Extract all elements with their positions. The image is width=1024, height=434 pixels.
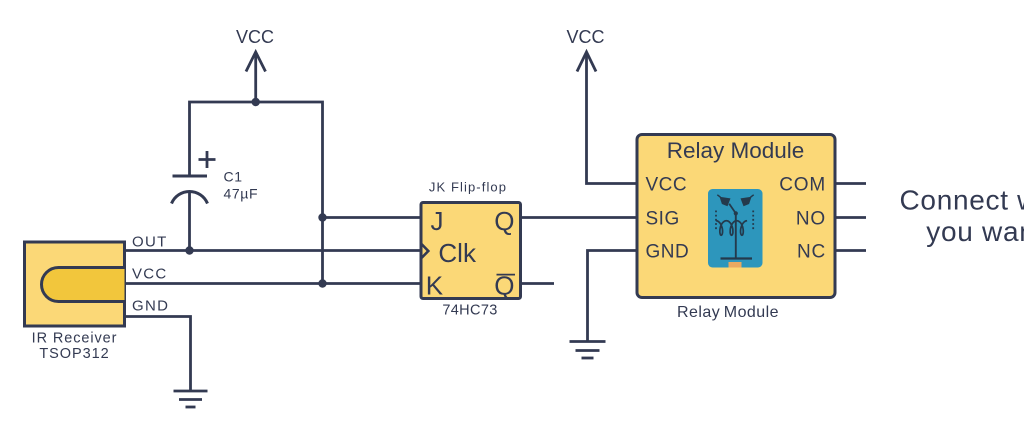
label C1 47uF xyxy=(224,169,259,202)
svg-text:JK Flip-flop: JK Flip-flop xyxy=(429,180,507,195)
junction node (VCC arrow / top wire) xyxy=(252,98,260,106)
svg-text:Q: Q xyxy=(494,206,514,236)
label Relay Module (title) xyxy=(667,138,805,163)
svg-text:OUT: OUT xyxy=(132,234,168,251)
wire NC stub xyxy=(835,249,866,252)
svg-text:SIG: SIG xyxy=(646,208,680,229)
svg-text:VCC: VCC xyxy=(236,27,274,47)
label IR Receiver TSOP312 xyxy=(32,331,118,362)
svg-text:J: J xyxy=(431,206,444,236)
power VCC arrow (right) xyxy=(577,52,637,184)
pin label VCC xyxy=(132,265,168,282)
wire COM stub xyxy=(835,182,866,185)
svg-text:GND: GND xyxy=(132,298,169,315)
capacitor C1 xyxy=(172,151,216,251)
svg-text:74HC73: 74HC73 xyxy=(442,303,497,319)
annotation Connect whatever you want xyxy=(900,185,1024,248)
label Relay Module (bottom) xyxy=(677,304,779,321)
JK flip-flop U1 74HC73 xyxy=(421,203,521,299)
wire NO stub xyxy=(835,216,866,219)
pin label SIG xyxy=(646,208,680,229)
ground (relay) xyxy=(570,342,606,359)
relay icon xyxy=(708,189,763,268)
svg-text:you want!: you want! xyxy=(926,216,1024,247)
power VCC arrow (left) xyxy=(246,52,266,102)
svg-text:COM: COM xyxy=(779,174,826,195)
pin label Q xyxy=(494,206,514,236)
label JK Flip-flop xyxy=(429,180,507,195)
svg-text:TSOP312: TSOP312 xyxy=(39,346,109,362)
pin label K xyxy=(426,271,444,301)
net label VCC (right) xyxy=(566,27,604,47)
junction node (cap / OUT wire) xyxy=(185,246,193,254)
wire capacitor top loop xyxy=(190,102,323,284)
pin label NO xyxy=(796,208,826,229)
pin label COM xyxy=(779,174,826,195)
relay module body xyxy=(637,135,835,298)
wire VCC to K xyxy=(125,282,422,285)
pin label Qbar xyxy=(494,271,515,301)
svg-text:Clk: Clk xyxy=(438,238,477,268)
svg-text:VCC: VCC xyxy=(646,174,688,195)
svg-text:IR Receiver: IR Receiver xyxy=(32,331,118,347)
label 74HC73 xyxy=(442,303,497,319)
pin label Clk xyxy=(438,238,477,268)
wire Q to SIG xyxy=(521,216,638,219)
wire J input xyxy=(323,216,422,219)
wire Qbar stub xyxy=(521,282,555,285)
wire relay GND to ground xyxy=(588,251,638,342)
net label VCC (left) xyxy=(236,27,274,47)
wire IR GND to ground xyxy=(125,317,191,392)
svg-text:47µF: 47µF xyxy=(224,186,259,202)
svg-text:Connect whatever: Connect whatever xyxy=(900,185,1024,216)
IR receiver TSOP312 body xyxy=(25,242,125,326)
svg-text:C1: C1 xyxy=(224,169,243,185)
svg-text:Relay Module: Relay Module xyxy=(667,138,805,163)
pin label GND (relay) xyxy=(646,241,690,262)
pin label OUT xyxy=(132,234,168,251)
pin label VCC (relay) xyxy=(646,174,688,195)
svg-text:VCC: VCC xyxy=(566,27,604,47)
svg-text:NC: NC xyxy=(797,241,826,262)
ground (IR receiver) xyxy=(174,391,208,407)
svg-text:K: K xyxy=(426,271,444,301)
svg-text:VCC: VCC xyxy=(132,265,168,282)
svg-text:NO: NO xyxy=(796,208,826,229)
pin label GND xyxy=(132,298,169,315)
wire OUT to Clk xyxy=(125,249,422,252)
pin label J xyxy=(431,206,444,236)
svg-text:Relay Module: Relay Module xyxy=(677,304,779,321)
junction node (VCC wire / K) xyxy=(318,279,326,287)
svg-text:GND: GND xyxy=(646,241,690,262)
pin label NC xyxy=(797,241,826,262)
junction node (J branch) xyxy=(318,213,326,221)
